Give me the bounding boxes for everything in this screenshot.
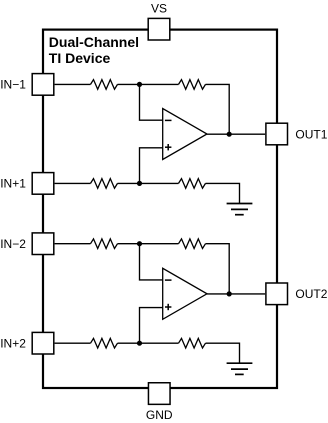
- wire R3 to node B: [118, 182, 140, 184]
- wire R1 to node A: [118, 83, 140, 85]
- svg-text:GND: GND: [146, 408, 173, 422]
- wire IN-1 to R1: [55, 83, 91, 85]
- pin box IN-1: [32, 74, 54, 96]
- node C junction dot: [137, 241, 142, 246]
- pin box VS: [148, 18, 170, 40]
- node D junction dot: [137, 341, 142, 346]
- resistor R1 (IN-1 input): [91, 80, 118, 90]
- svg-text:IN−1: IN−1: [0, 78, 26, 92]
- wire node B up to noninverting input of U1: [140, 148, 163, 184]
- wire R8 to ground 2: [206, 343, 240, 363]
- wire R5 to node C: [118, 243, 140, 245]
- pin box OUT2: [266, 283, 288, 305]
- output node dot channel 1: [227, 132, 232, 137]
- wire node C down to inverting input of U2: [140, 244, 163, 280]
- ground symbol 2: [227, 363, 253, 374]
- svg-text:Dual-Channel: Dual-Channel: [49, 34, 139, 50]
- wire node D up to noninverting input of U2: [140, 308, 163, 344]
- wire node A down to inverting input of U1: [140, 84, 163, 120]
- wire U2 output to OUT2: [207, 293, 265, 295]
- svg-text:OUT1: OUT1: [295, 127, 327, 141]
- pin box OUT1: [266, 123, 288, 145]
- svg-text:IN−2: IN−2: [0, 237, 26, 251]
- resistor R6 (feedback, channel 2): [179, 239, 206, 249]
- svg-text:OUT2: OUT2: [295, 287, 327, 301]
- svg-text:IN+2: IN+2: [0, 337, 26, 351]
- node A junction dot: [137, 82, 142, 87]
- U2 plus sign: [165, 304, 171, 310]
- resistor R5 (IN-2 input): [91, 239, 118, 249]
- U1 plus sign: [165, 144, 171, 150]
- pin box IN+1: [32, 173, 54, 195]
- wire node C to feedback resistor R6: [140, 243, 179, 245]
- wire R6 to feedback corner channel 2: [206, 244, 230, 294]
- wire IN-2 to R5: [55, 243, 91, 245]
- wire R4 to ground 1: [206, 183, 240, 203]
- pin box IN+2: [32, 332, 54, 354]
- device outline rectangle: [43, 30, 277, 388]
- wire R7 to node D: [118, 342, 140, 344]
- wire node B to resistor R4: [140, 182, 179, 184]
- op-amp U2 (channel 2): [163, 268, 207, 319]
- op-amp U1 (channel 1): [163, 109, 207, 160]
- resistor R3 (IN+1 input): [91, 179, 118, 189]
- wire IN+2 to R7: [55, 342, 91, 344]
- ground symbol 1: [227, 204, 253, 215]
- pin box IN-2: [32, 233, 54, 255]
- pin box GND: [148, 383, 170, 405]
- svg-text:IN+1: IN+1: [0, 177, 26, 191]
- wire node D to resistor R8: [140, 342, 179, 344]
- wire node A to feedback resistor R2: [140, 83, 179, 85]
- wire R2 to feedback corner: [206, 84, 230, 134]
- U1 minus sign: [165, 119, 172, 121]
- output node dot channel 2: [227, 291, 232, 296]
- U2 minus sign: [165, 279, 172, 281]
- resistor R2 (feedback, channel 1): [179, 80, 206, 90]
- svg-text:TI Device: TI Device: [49, 50, 111, 66]
- wire U1 output to OUT1: [207, 133, 265, 135]
- resistor R8 (to ground, channel 2): [179, 338, 206, 348]
- node B junction dot: [137, 181, 142, 186]
- resistor R4 (to ground, channel 1): [179, 179, 206, 189]
- wire IN+1 to R3: [55, 182, 91, 184]
- resistor R7 (IN+2 input): [91, 338, 118, 348]
- svg-text:VS: VS: [151, 1, 167, 15]
